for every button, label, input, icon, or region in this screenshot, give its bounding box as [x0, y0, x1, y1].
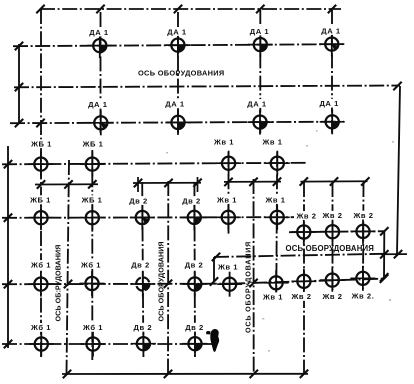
wire dimension line y=182 seg3 — [224, 181, 281, 183]
wire column axis x=41 — [40, 9, 42, 357]
tick top line at column DA-1 — [96, 5, 104, 13]
label ZhB1 row-D #2 — [80, 195, 105, 204]
wire dimension line y=183 seg2 — [133, 182, 201, 184]
tick mid line left corner — [212, 253, 220, 261]
wire top dimension line y=9 — [40, 8, 341, 10]
label Zhb1 row-H #1 — [29, 323, 54, 332]
svg-text:Жв 1: Жв 1 — [217, 263, 238, 272]
svg-text:Жв 2.: Жв 2. — [351, 292, 375, 301]
svg-text:ДА 1: ДА 1 — [89, 28, 109, 37]
equipment Zhv1 row-C #1 — [216, 151, 241, 176]
wire left dimension x=19 — [18, 44, 20, 124]
wire column axis DA-2 x=178 — [177, 12, 179, 133]
svg-text:ДА 1: ДА 1 — [321, 26, 341, 35]
equipment Dv2 row-D #4 — [182, 205, 207, 230]
label DA1 row-A x=99.8 — [87, 28, 112, 37]
tick bottom of x=384 vertical — [380, 273, 388, 281]
wire small right dimension y=254 — [381, 253, 407, 255]
label Zhv1 row-D #5 — [215, 195, 240, 204]
equipment Dv2 row-H #4 — [183, 331, 208, 356]
svg-text:Жв 2: Жв 2 — [321, 292, 342, 301]
label ZhB1 row-C #1 — [29, 139, 54, 148]
wire central OS OBORUDOVANIYA axis y=87 — [14, 86, 400, 88]
svg-text:ЖБ 1: ЖБ 1 — [81, 196, 103, 205]
label Dv2 row-F #4 — [182, 260, 207, 269]
label ZhB1 row-D #1 — [28, 195, 53, 204]
equipment Zhv1 row-G #2 — [264, 270, 289, 295]
svg-text:Жв 2: Жв 2 — [352, 211, 373, 220]
tick dim184 at 41 — [37, 180, 45, 188]
label Dv2 row-F #3 — [128, 260, 153, 269]
tick dim182 at 253 — [249, 178, 257, 186]
wire column axis x=304 — [303, 182, 305, 374]
tick dim183 at 138 — [134, 179, 142, 187]
equipment Zhv1 row-G #1 — [217, 272, 242, 297]
svg-text:ОСЬ ОБ:РУДОВАНИЯ: ОСЬ ОБ:РУДОВАНИЯ — [54, 245, 63, 322]
tick row-F axis at x=68 — [64, 280, 72, 288]
wire row-F equipment axis right part — [230, 279, 385, 284]
svg-text:ДА 1: ДА 1 — [319, 99, 339, 108]
wire row-D equipment axis — [2, 216, 308, 219]
wire right vertical x=384 — [383, 231, 385, 277]
equipment ZhB1 row-C #1 — [28, 152, 53, 177]
ink blot / arrow at end of row-H axis — [210, 329, 219, 352]
wire row-E Zhv2 axis — [289, 231, 385, 232]
label Zhb1 row-H #2 — [81, 323, 106, 332]
svg-text:ОСЬ ОБОРУДОВАНИЯ: ОСЬ ОБОРУДОВАНИЯ — [244, 241, 253, 333]
label DA1 row-A x=331.8 — [319, 26, 344, 35]
equipment DA1 row-B #4 — [320, 109, 345, 134]
equipment Zhb1 row-H #1 — [29, 332, 54, 357]
svg-text:ДА 1: ДА 1 — [88, 100, 108, 109]
svg-text:Жб 1: Жб 1 — [30, 260, 51, 269]
svg-text:Жб 1: Жб 1 — [82, 323, 103, 332]
tick row-F axis at x=168 — [164, 280, 172, 288]
label Zhv1 row-D #6 — [263, 195, 288, 204]
label Zhv2 row-G below #4 — [320, 292, 345, 301]
tick bottom of x=214 vertical — [210, 277, 218, 285]
svg-text:Дв 2: Дв 2 — [129, 196, 148, 205]
wire column axis x=332 — [332, 182, 334, 290]
tick bottom dim at 168 — [164, 370, 172, 378]
tick dim181 at 334 — [330, 177, 338, 185]
label Zhv2 row-E #1 — [294, 211, 319, 220]
svg-text:Жв 1: Жв 1 — [213, 138, 234, 147]
equipment Zhv2 row-E #1 — [291, 220, 316, 245]
tick top line at col grid x=40 — [36, 5, 44, 13]
svg-text:Жв 2: Жв 2 — [321, 211, 342, 220]
tick row-F axis right end — [380, 275, 388, 283]
tick row-F axis at left ref line — [4, 280, 12, 288]
wire column axis x=277 — [275, 152, 278, 293]
tick bottom dim at 254 — [250, 370, 258, 378]
wire mid horizontal line y=256 — [214, 254, 385, 257]
tick top line at column DA-3 — [256, 5, 264, 13]
tick bottom dim at 304 — [300, 370, 308, 378]
equipment DA1 row-B #3 — [248, 110, 273, 135]
svg-text:Жв 2: Жв 2 — [290, 292, 311, 301]
equipment Zhv1 row-C #2 — [265, 151, 290, 176]
svg-text:ЖБ 1: ЖБ 1 — [82, 140, 104, 149]
label DA1 row-B x=178 — [163, 99, 188, 108]
tick row-E axis right end — [380, 227, 388, 235]
wire left reference line x=8 — [7, 146, 9, 348]
svg-text:ОСЬ ОБОРУДОВАНИЯ: ОСЬ ОБОРУДОВАНИЯ — [138, 68, 225, 77]
equipment ZhB1 row-D #2 — [80, 205, 105, 230]
equipment Dv2 row-F #3 — [130, 272, 155, 297]
wire row-C equipment axis — [2, 163, 307, 165]
label DA1 row-B x=332.2 — [317, 99, 342, 108]
svg-text:Дв 2: Дв 2 — [131, 261, 150, 270]
svg-text:Жв 1: Жв 1 — [261, 138, 282, 147]
tick dim183 at 168 — [164, 179, 172, 187]
svg-text:ЖБ 1: ЖБ 1 — [29, 196, 51, 205]
label Zhv1 row-C #1 — [212, 137, 237, 146]
wire short vertical x=214 — [213, 257, 215, 282]
tick right dim at 384 — [380, 250, 388, 258]
equipment Zhv2 row-E #3 — [351, 219, 376, 244]
label Zhv1 row-G below #2 — [261, 292, 286, 301]
svg-text:Дв 2: Дв 2 — [185, 261, 204, 270]
svg-text:ДА 1: ДА 1 — [250, 27, 270, 36]
equipment DA1 row-A #1 — [87, 33, 112, 58]
tick central axis at x=19 — [15, 83, 23, 91]
svg-text:Дв 2: Дв 2 — [182, 196, 201, 205]
tick row-D axis at left ref line — [4, 214, 12, 222]
tick row-A axis at x=19 — [15, 42, 23, 50]
tick row-F axis at x=253 — [249, 279, 257, 287]
svg-text:ДА 1: ДА 1 — [247, 99, 267, 108]
label Zhb1 row-F #2 — [79, 260, 104, 269]
svg-text:Жв 1: Жв 1 — [264, 195, 285, 204]
svg-text:Дв 2: Дв 2 — [185, 323, 204, 332]
label Dv2 row-H #3 — [130, 323, 155, 332]
wire column axis x=228 — [228, 152, 230, 236]
wire column axis x=195 — [193, 182, 196, 358]
wire axis line x=68 — [67, 160, 70, 374]
label Zhv2 row-E #2 — [320, 211, 345, 220]
equipment Zhb1 row-F #1 — [28, 272, 53, 297]
tick row-B axis at x=19 — [15, 119, 23, 127]
svg-text:Жб 1: Жб 1 — [80, 260, 101, 269]
wire axis line x=168 — [167, 181, 169, 374]
tick right dim at 398 — [394, 250, 402, 258]
tick dim181 at 365 — [361, 177, 369, 185]
equipment ZhB1 row-C #2 — [80, 152, 105, 177]
wire dim183 extension stub x=138 — [137, 177, 139, 192]
svg-text:Дв 2: Дв 2 — [133, 323, 152, 332]
wire dimension line y=181 seg4 — [301, 180, 368, 182]
wire row-A equipment axis — [13, 44, 346, 46]
equipment Zhv2 row-E #2 — [320, 219, 345, 244]
scan speck — [166, 130, 394, 352]
svg-text:Жб 1: Жб 1 — [30, 323, 51, 332]
equipment Zhb1 row-H #2 — [81, 332, 106, 357]
label ZhB1 row-C #2 — [81, 139, 106, 148]
equipment Zhb1 row-F #2 — [80, 271, 105, 296]
wire column axis x=92 — [91, 150, 93, 360]
equipment DA1 row-B #2 — [166, 110, 191, 135]
equipment DA1 row-B #1 — [88, 110, 113, 135]
svg-text:Жв 1: Жв 1 — [262, 293, 283, 302]
equipment Dv2 row-D #3 — [130, 205, 155, 230]
wire column axis DA-3 x=260 — [259, 9, 261, 133]
wire bottom dimension line y=374 — [62, 373, 308, 375]
tick dim183 at 197 — [193, 179, 201, 187]
tick row-C axis at left ref line — [4, 160, 12, 168]
wire column axis x=363 — [362, 182, 365, 289]
wire dimension line y=184 seg1 — [35, 183, 98, 185]
equipment ZhB1 row-D #1 — [29, 205, 54, 230]
label Zhv1 row-C #2 — [260, 137, 285, 146]
svg-text:Жв 1: Жв 1 — [216, 195, 237, 204]
svg-text:ОСЬ ОБОРУДОВАНИЯ: ОСЬ ОБОРУДОВАНИЯ — [286, 244, 375, 253]
wire row-B equipment axis — [10, 122, 344, 124]
tick dim184 at 68 — [64, 180, 72, 188]
tick dim184 at 92 — [88, 180, 96, 188]
label Dv2 row-H #4 — [182, 323, 207, 332]
label Zhv1 row-G #1 — [217, 262, 238, 271]
wire right vertical x=398 — [397, 86, 400, 254]
label DA1 row-A x=260.3 — [247, 27, 272, 36]
wire column axis DA-1 x=100 — [100, 12, 102, 133]
tick dim182 at 228 — [224, 178, 232, 186]
equipment DA1 row-A #3 — [248, 32, 273, 57]
wire axis line x=253 — [253, 179, 255, 374]
equipment DA1 row-A #2 — [165, 33, 190, 58]
equipment Zhv2 row-G #3 — [291, 269, 316, 294]
equipment Zhv1 row-D #6 — [265, 205, 290, 230]
label Zhb1 row-F #1 — [29, 260, 54, 269]
tick row-B axis at x=40 — [36, 119, 44, 127]
equipment Zhv2 row-G #5 — [350, 266, 375, 291]
tick dim181 at 304 — [300, 177, 308, 185]
label Zhv2 row-G below #5 — [351, 291, 376, 300]
equipment DA1 row-A #4 — [319, 32, 344, 57]
wire column axis DA-4 x=332 — [331, 9, 333, 133]
tick top line at column DA-2 — [174, 5, 182, 13]
svg-text:ДА 1: ДА 1 — [167, 27, 187, 36]
svg-text:ДА 1: ДА 1 — [165, 100, 185, 109]
svg-text:Жв 2: Жв 2 — [295, 211, 316, 220]
tick central axis right corner — [393, 82, 401, 90]
wire dim183 extension stub x=197 — [197, 177, 199, 192]
tick row-H axis at left ref line — [4, 340, 12, 348]
label Dv2 row-D #4 — [179, 196, 204, 205]
label DA1 row-B x=260 — [245, 99, 270, 108]
label DA1 row-B x=100.8 — [85, 100, 110, 109]
svg-text:ОСЬ ОБОРУДОВАНИЯ: ОСЬ ОБОРУДОВАНИЯ — [157, 241, 166, 321]
equipment Zhv2 row-G #4 — [320, 268, 345, 293]
wire column axis x=142 — [142, 182, 143, 358]
wire row-H equipment axis — [2, 343, 212, 345]
label Zhv2 row-E #3 — [351, 211, 376, 220]
label DA1 row-A x=177.9 — [165, 27, 190, 36]
equipment Dv2 row-H #3 — [131, 331, 156, 356]
label Zhv2 row-G below #3 — [289, 292, 314, 301]
label Dv2 row-D #3 — [126, 196, 151, 205]
tick bottom dim at 67 — [63, 370, 71, 378]
tick top line at column DA-4 — [328, 5, 336, 13]
equipment Zhv1 row-D #5 — [216, 205, 241, 230]
equipment Dv2 row-F #4 — [182, 272, 207, 297]
tick dim182 at 277 — [273, 178, 281, 186]
svg-text:ЖБ 1: ЖБ 1 — [30, 140, 52, 149]
wire row-F equipment axis left part — [2, 283, 230, 286]
